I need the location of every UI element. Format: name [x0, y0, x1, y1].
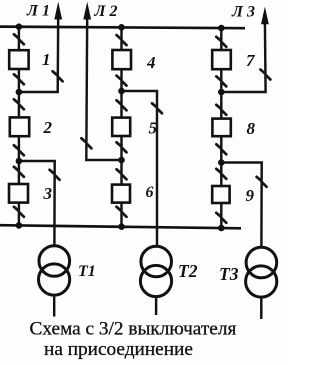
label transformer T2 [178, 261, 198, 281]
disconnector string3 above breaker 7 [216, 37, 226, 47]
caption line 1 [30, 319, 237, 340]
transformer T3 [246, 247, 277, 319]
svg-text:3: 3 [43, 184, 53, 203]
svg-text:Л 3: Л 3 [231, 4, 255, 21]
transformer T3 lead wire [221, 163, 261, 247]
disconnector string2 below breaker 4 [117, 76, 127, 86]
disconnector string2 above breaker 6 [117, 169, 127, 179]
disconnector string2 above breaker 4 [117, 35, 127, 45]
disconnector string1 above breaker 2 [14, 99, 24, 109]
disconnector string1 above breaker 1 [14, 34, 24, 44]
node tap1 string1 [16, 89, 23, 96]
breaker 8 [212, 119, 230, 137]
disconnector string2 above breaker 5 [117, 100, 127, 110]
breaker 6 [112, 185, 130, 203]
disconnector string1 below breaker 1 [14, 74, 24, 84]
label breaker 9 [246, 186, 255, 205]
svg-text:8: 8 [247, 119, 256, 138]
breaker 9 [212, 186, 229, 203]
disconnector string1 below breaker 2 [14, 145, 24, 155]
disconnector on T2 lead [152, 103, 162, 113]
svg-text:1: 1 [42, 50, 51, 69]
node string3/bottom bus [218, 225, 225, 232]
label breaker 5 [149, 119, 158, 138]
svg-text:4: 4 [146, 53, 156, 72]
disconnector on Л3 feeder [260, 70, 270, 80]
wire string 3 (bus to bus) [220, 28, 222, 228]
disconnector string1 above breaker 3 [14, 167, 24, 177]
disconnector string3 below breaker 8 [216, 144, 226, 154]
breaker 1 [9, 50, 28, 69]
node tap2 string3 [218, 159, 225, 166]
label transformer T3 [219, 264, 239, 284]
disconnector string2 below breaker 5 [117, 142, 127, 152]
breaker 7 [212, 50, 231, 69]
bottom busbar wire [0, 225, 241, 228]
label breaker 8 [247, 119, 256, 138]
breaker 2 [10, 117, 29, 136]
line feeder Л2 wire with arrow [83, 2, 121, 160]
disconnector on Л2 feeder [81, 138, 91, 148]
label breaker 6 [146, 184, 154, 201]
disconnector string2 below breaker 6 [117, 207, 127, 217]
node tap1 string3 [218, 89, 225, 96]
node tap1 string2 [118, 88, 125, 95]
svg-text:9: 9 [246, 186, 255, 205]
node tap2 string2 [118, 157, 125, 164]
top busbar wire [0, 27, 245, 29]
disconnector string3 below breaker 7 [216, 76, 226, 86]
label Л3 [231, 4, 255, 21]
disconnector on T3 lead [257, 177, 267, 187]
label breaker 4 [146, 53, 156, 72]
breaker 4 [112, 50, 131, 69]
label breaker 3 [43, 184, 53, 203]
wire string 1 (bus to bus) [18, 27, 20, 226]
line feeder Л1 wire with arrow [19, 2, 62, 92]
svg-text:Т1: Т1 [78, 263, 96, 280]
svg-text:Т3: Т3 [219, 264, 239, 284]
breaker 3 [9, 184, 28, 203]
svg-text:5: 5 [149, 119, 158, 138]
node string1/top bus [16, 23, 23, 30]
disconnector on T1 lead [50, 170, 60, 180]
node string2/top bus [118, 24, 125, 31]
node string2/bottom bus [118, 223, 125, 230]
node string1/bottom bus [16, 222, 23, 229]
wire string 2 (bus to bus) [120, 27, 122, 226]
disconnector on Л1 feeder [53, 71, 63, 81]
node tap2 string1 [16, 158, 23, 165]
line feeder Л3 wire with arrow [221, 7, 268, 92]
svg-text:Л 2: Л 2 [94, 3, 118, 20]
node string3/top bus [218, 25, 225, 32]
transformer T2 [140, 246, 171, 315]
disconnector string3 below breaker 9 [216, 213, 226, 223]
label Л1 [26, 3, 50, 20]
svg-text:7: 7 [246, 51, 256, 70]
svg-text:2: 2 [43, 118, 53, 137]
disconnector string1 below breaker 3 [14, 207, 24, 217]
label breaker 1 [42, 50, 51, 69]
label breaker 2 [43, 118, 53, 137]
svg-text:Схема с 3/2 выключателя: Схема с 3/2 выключателя [30, 319, 237, 340]
svg-text:Т2: Т2 [178, 261, 198, 281]
label transformer T1 [78, 263, 96, 280]
caption line 2 [44, 339, 193, 360]
transformer T2 lead wire [122, 91, 158, 245]
label breaker 7 [246, 51, 256, 70]
svg-text:на присоединение: на присоединение [44, 339, 193, 360]
label Л2 [94, 3, 118, 20]
breaker 5 [112, 118, 130, 136]
svg-text:Л 1: Л 1 [26, 3, 50, 20]
disconnector string3 above breaker 8 [216, 105, 226, 115]
svg-text:6: 6 [146, 184, 154, 201]
transformer T1 lead wire [19, 161, 55, 245]
disconnector string3 above breaker 9 [216, 169, 226, 179]
transformer T1 [39, 246, 70, 317]
